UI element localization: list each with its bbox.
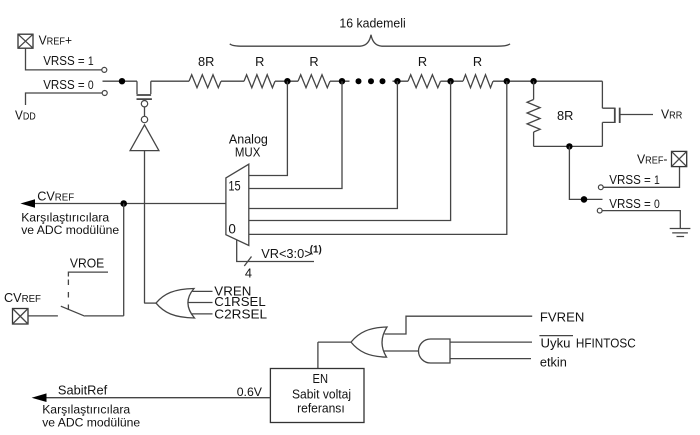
svg-text:VR<3:0>: VR<3:0> xyxy=(261,246,312,261)
svg-text:HFINTOSC: HFINTOSC xyxy=(576,335,636,350)
svg-text:SabitRef: SabitRef xyxy=(58,382,108,397)
svg-text:EN: EN xyxy=(313,371,329,386)
svg-text:8R: 8R xyxy=(557,108,573,123)
svg-text:16 kademeli: 16 kademeli xyxy=(339,15,405,30)
svg-text:ve ADC modülüne: ve ADC modülüne xyxy=(21,223,119,237)
svg-text:VROE: VROE xyxy=(70,255,104,270)
svg-text:referansı: referansı xyxy=(297,401,345,416)
svg-text:15: 15 xyxy=(228,178,240,193)
svg-text:R: R xyxy=(255,54,264,69)
svg-text:8R: 8R xyxy=(198,54,214,69)
svg-text:(1): (1) xyxy=(310,245,322,256)
svg-text:0.6V: 0.6V xyxy=(237,385,263,399)
svg-text:VRSS = 1: VRSS = 1 xyxy=(43,53,93,68)
svg-text:MUX: MUX xyxy=(235,145,261,160)
svg-text:VRSS = 0: VRSS = 0 xyxy=(43,77,93,92)
svg-text:etkin: etkin xyxy=(540,355,567,370)
svg-text:0: 0 xyxy=(228,221,236,236)
svg-text:Uyku: Uyku xyxy=(541,335,571,350)
svg-text:VRSS = 1: VRSS = 1 xyxy=(609,172,660,187)
svg-text:R: R xyxy=(418,54,427,69)
svg-text:R: R xyxy=(473,54,482,69)
svg-text:Sabit voltaj: Sabit voltaj xyxy=(292,386,351,401)
svg-text:ve ADC modülüne: ve ADC modülüne xyxy=(42,415,140,429)
svg-text:VRSS = 0: VRSS = 0 xyxy=(609,196,660,211)
svg-text:C2RSEL: C2RSEL xyxy=(214,307,267,322)
svg-text:FVREN: FVREN xyxy=(540,310,584,325)
svg-text:R: R xyxy=(309,54,318,69)
svg-text:4: 4 xyxy=(245,265,252,280)
